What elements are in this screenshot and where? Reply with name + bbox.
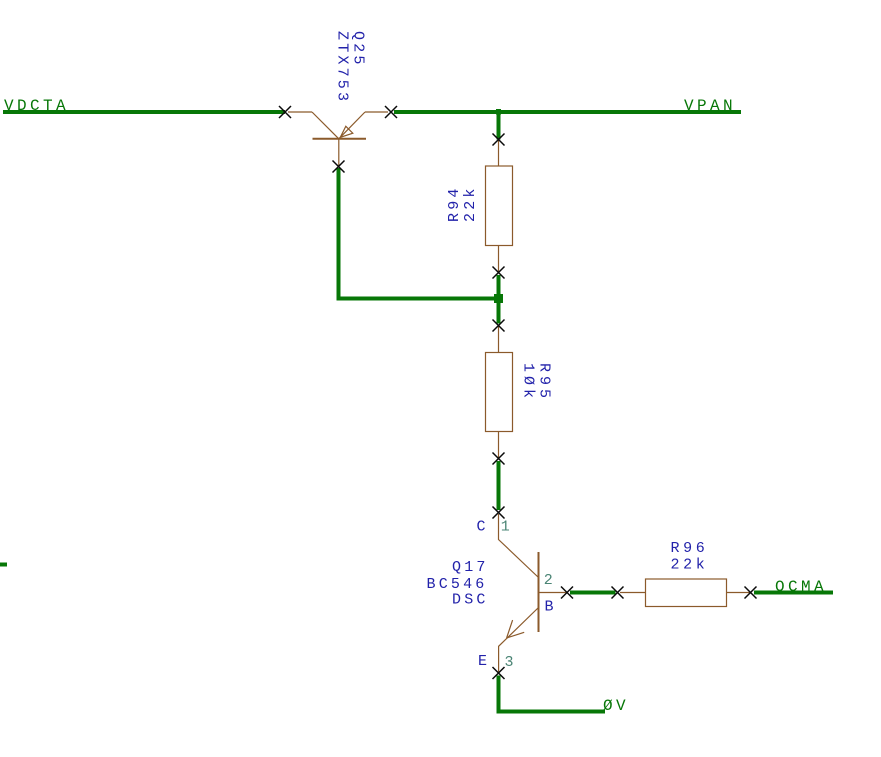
junction at VPAN wire [496, 109, 501, 115]
wire VDCTA horizontal [3, 110, 285, 114]
wire OCMA [754, 591, 833, 595]
wire stub left edge [0, 563, 7, 567]
svg-text:C: C [477, 519, 489, 536]
wire Q17 emitter to 0V [499, 676, 606, 712]
node Q17 collector [493, 507, 505, 519]
svg-text:R9622k: R9622k [671, 540, 709, 574]
svg-text:R951Øk: R951Øk [520, 363, 553, 402]
svg-text:VDCTA: VDCTA [4, 97, 69, 115]
node VDCTA wire end [279, 106, 291, 118]
svg-text:E: E [478, 653, 490, 670]
wire Q25 base down and across to node [339, 168, 499, 299]
wire R94 bottom to node [497, 275, 501, 324]
node R94 pin 2 [493, 267, 505, 279]
junction node [494, 294, 503, 303]
wire stub from VPAN junction down [497, 112, 501, 140]
node R94 pin 1 [493, 134, 505, 146]
wire node to R95 [497, 461, 501, 510]
node Q17 base [561, 587, 573, 599]
resistor R95 [486, 326, 513, 459]
node R95 pin 1 [493, 320, 505, 332]
transistor Q25 [288, 112, 388, 167]
wire VPAN horizontal [394, 110, 741, 114]
resistor R94 [486, 140, 513, 273]
node R96 pin 1 [612, 587, 624, 599]
node Q17 emitter [493, 667, 505, 679]
svg-text:VPAN: VPAN [684, 97, 736, 115]
node Q25 base [333, 161, 345, 173]
svg-text:B: B [545, 599, 557, 616]
transistor Q17 [499, 514, 568, 673]
node R95 pin 2 [493, 453, 505, 465]
wire Q17 base to R96 [570, 591, 616, 595]
svg-text:2: 2 [544, 572, 556, 589]
svg-text:1: 1 [501, 519, 513, 536]
svg-text:ØV: ØV [603, 697, 629, 715]
resistor R96 [620, 579, 751, 607]
svg-text:OCMA: OCMA [775, 578, 827, 596]
svg-text:R9422k: R9422k [446, 185, 479, 222]
node R96 pin 2 [745, 587, 757, 599]
node VPAN wire end [385, 106, 397, 118]
svg-text:3: 3 [505, 654, 517, 671]
